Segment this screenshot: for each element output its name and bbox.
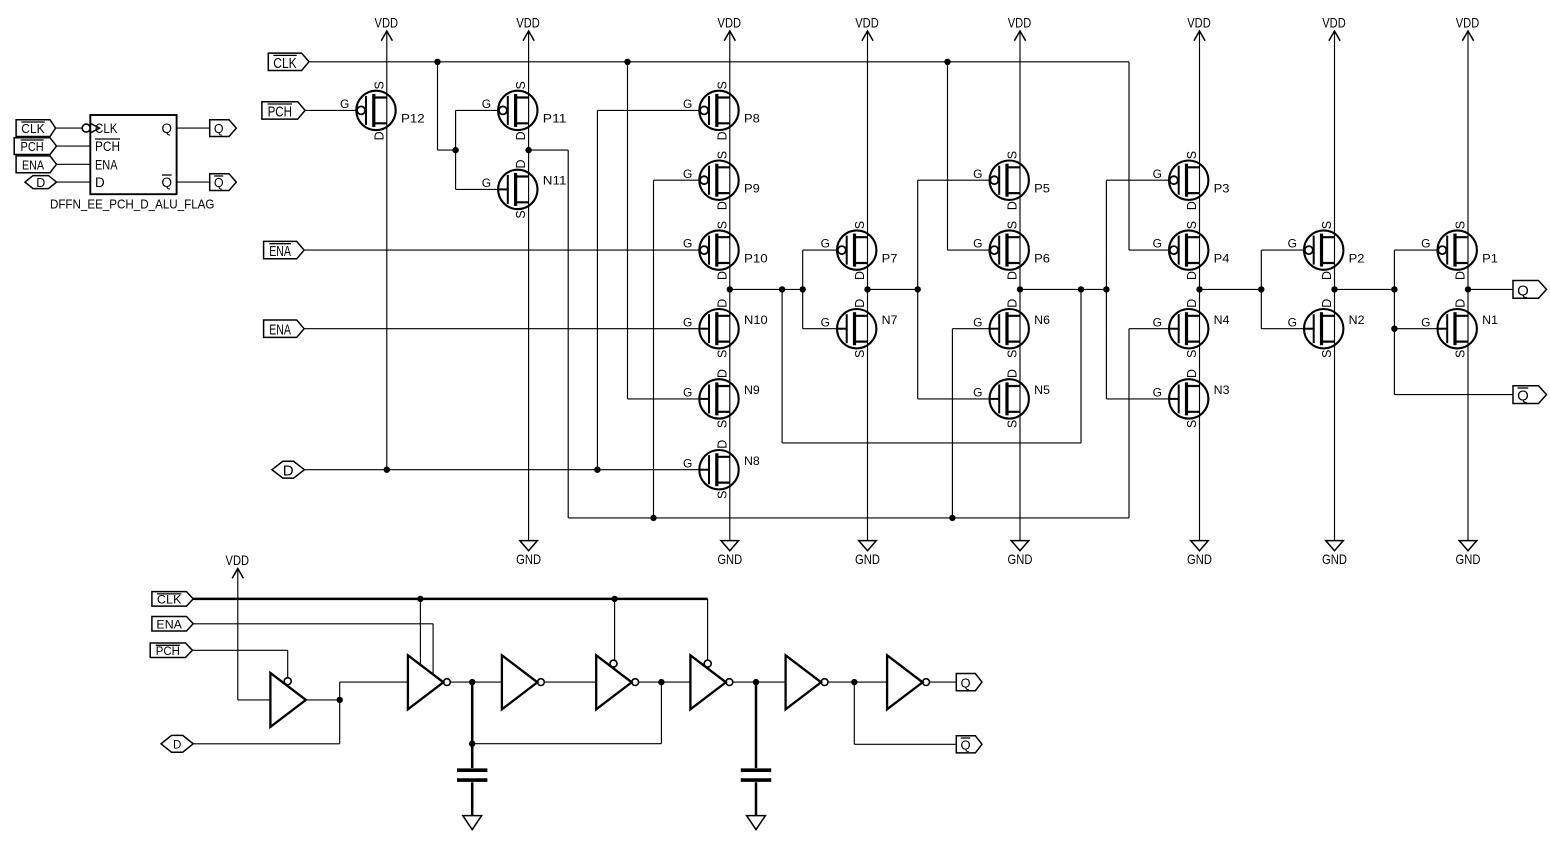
svg-text:Q: Q <box>214 122 224 136</box>
svg-text:P4: P4 <box>1214 251 1230 265</box>
svg-text:P7: P7 <box>882 251 898 265</box>
svg-text:S: S <box>1006 221 1020 229</box>
svg-text:GND: GND <box>1322 551 1347 567</box>
svg-text:P11: P11 <box>543 112 567 126</box>
svg-text:S: S <box>1006 350 1020 358</box>
svg-text:P2: P2 <box>1349 251 1365 265</box>
svg-text:G: G <box>973 237 982 251</box>
svg-text:D: D <box>36 176 45 190</box>
svg-text:S: S <box>514 210 528 218</box>
svg-text:D: D <box>95 175 105 190</box>
svg-text:CLK: CLK <box>21 122 45 136</box>
svg-text:N3: N3 <box>1214 383 1230 397</box>
svg-text:Q: Q <box>1517 388 1529 405</box>
svg-text:ENA: ENA <box>22 158 45 172</box>
svg-text:D: D <box>715 299 729 308</box>
svg-text:D: D <box>514 159 528 168</box>
svg-text:D: D <box>853 271 867 280</box>
svg-text:G: G <box>1421 237 1430 251</box>
svg-text:D: D <box>1320 271 1334 280</box>
svg-text:GND: GND <box>717 551 742 567</box>
svg-text:P5: P5 <box>1034 181 1050 195</box>
svg-text:S: S <box>715 151 729 159</box>
svg-text:N2: N2 <box>1349 313 1365 327</box>
svg-text:D: D <box>1320 299 1334 308</box>
svg-text:PCH: PCH <box>268 103 292 120</box>
svg-text:G: G <box>482 97 491 111</box>
svg-text:VDD: VDD <box>1322 16 1346 31</box>
svg-text:VDD: VDD <box>718 16 742 31</box>
svg-text:D: D <box>853 299 867 308</box>
svg-text:ENA: ENA <box>156 620 182 632</box>
svg-text:G: G <box>1153 315 1162 329</box>
svg-text:D: D <box>1454 299 1468 308</box>
svg-text:S: S <box>1185 350 1199 358</box>
svg-text:CLK: CLK <box>157 595 182 607</box>
svg-text:N10: N10 <box>744 313 768 327</box>
svg-text:G: G <box>683 315 692 329</box>
svg-text:S: S <box>1320 221 1334 229</box>
svg-text:G: G <box>1153 386 1162 400</box>
svg-text:ENA: ENA <box>269 322 291 339</box>
svg-text:D: D <box>1006 369 1020 378</box>
svg-text:S: S <box>715 491 729 499</box>
svg-text:PCH: PCH <box>21 140 44 154</box>
svg-text:S: S <box>372 81 386 89</box>
svg-text:G: G <box>683 386 692 400</box>
svg-text:ENA: ENA <box>95 157 118 172</box>
svg-text:VDD: VDD <box>375 16 399 31</box>
svg-text:GND: GND <box>1008 551 1033 567</box>
svg-text:G: G <box>1288 315 1297 329</box>
svg-text:G: G <box>973 386 982 400</box>
svg-text:S: S <box>1006 420 1020 428</box>
svg-text:D: D <box>1006 271 1020 280</box>
svg-text:Q: Q <box>162 175 173 190</box>
svg-text:G: G <box>683 237 692 251</box>
svg-text:D: D <box>1185 271 1199 280</box>
svg-text:G: G <box>1153 167 1162 181</box>
svg-text:PCH: PCH <box>156 646 180 658</box>
svg-text:Q: Q <box>960 675 970 690</box>
svg-text:G: G <box>482 176 491 190</box>
svg-text:G: G <box>683 456 692 470</box>
svg-text:VDD: VDD <box>855 16 879 31</box>
svg-text:D: D <box>715 131 729 140</box>
svg-text:S: S <box>1185 151 1199 159</box>
svg-text:D: D <box>1185 201 1199 210</box>
svg-text:Q: Q <box>1517 282 1529 299</box>
svg-text:VDD: VDD <box>1008 16 1032 31</box>
svg-text:D: D <box>715 201 729 210</box>
svg-text:N7: N7 <box>882 313 898 327</box>
svg-text:N8: N8 <box>744 454 760 468</box>
svg-text:S: S <box>715 221 729 229</box>
svg-text:N11: N11 <box>543 174 567 188</box>
svg-text:D: D <box>1185 369 1199 378</box>
svg-text:G: G <box>340 97 349 111</box>
svg-text:G: G <box>973 315 982 329</box>
svg-text:VDD: VDD <box>1187 16 1211 31</box>
svg-text:PCH: PCH <box>95 139 120 154</box>
svg-text:N9: N9 <box>744 383 760 397</box>
svg-text:D: D <box>715 271 729 280</box>
svg-text:N1: N1 <box>1482 313 1498 327</box>
svg-text:VDD: VDD <box>226 553 250 568</box>
svg-text:VDD: VDD <box>516 16 540 31</box>
svg-text:Q: Q <box>162 121 173 136</box>
svg-text:S: S <box>514 81 528 89</box>
svg-text:G: G <box>683 167 692 181</box>
svg-text:G: G <box>973 167 982 181</box>
svg-text:D: D <box>514 131 528 140</box>
svg-text:P3: P3 <box>1214 181 1230 195</box>
svg-text:D: D <box>715 369 729 378</box>
svg-text:S: S <box>1185 420 1199 428</box>
svg-text:D: D <box>1006 201 1020 210</box>
svg-text:S: S <box>1320 350 1334 358</box>
svg-text:VDD: VDD <box>1456 16 1480 31</box>
svg-text:D: D <box>1454 271 1468 280</box>
svg-text:D: D <box>1006 299 1020 308</box>
svg-text:G: G <box>1421 315 1430 329</box>
svg-text:N4: N4 <box>1214 313 1230 327</box>
svg-text:GND: GND <box>1456 551 1481 567</box>
svg-text:GND: GND <box>855 551 880 567</box>
svg-text:CLK: CLK <box>273 55 296 72</box>
svg-text:Q: Q <box>214 176 224 190</box>
svg-text:S: S <box>1454 350 1468 358</box>
svg-text:P9: P9 <box>744 181 760 195</box>
svg-text:D: D <box>1185 299 1199 308</box>
svg-text:P8: P8 <box>744 112 760 126</box>
svg-text:S: S <box>1185 221 1199 229</box>
svg-text:GND: GND <box>516 551 541 567</box>
svg-text:S: S <box>853 221 867 229</box>
svg-text:ENA: ENA <box>269 243 291 260</box>
svg-text:G: G <box>821 315 830 329</box>
svg-text:N5: N5 <box>1034 383 1050 397</box>
svg-text:D: D <box>715 440 729 449</box>
svg-text:P10: P10 <box>744 251 768 265</box>
svg-text:S: S <box>1454 221 1468 229</box>
svg-text:G: G <box>821 237 830 251</box>
svg-text:S: S <box>715 81 729 89</box>
svg-text:CLK: CLK <box>95 121 118 136</box>
svg-text:P6: P6 <box>1034 251 1050 265</box>
svg-text:D: D <box>372 131 386 140</box>
svg-text:N6: N6 <box>1034 313 1050 327</box>
svg-text:D: D <box>283 463 294 480</box>
svg-text:P1: P1 <box>1482 251 1498 265</box>
svg-text:P12: P12 <box>401 112 425 126</box>
svg-text:G: G <box>1288 237 1297 251</box>
svg-text:S: S <box>715 420 729 428</box>
svg-text:D: D <box>173 740 181 752</box>
svg-text:S: S <box>715 350 729 358</box>
svg-text:S: S <box>1006 151 1020 159</box>
svg-text:Q: Q <box>960 738 970 753</box>
svg-text:DFFN_EE_PCH_D_ALU_FLAG: DFFN_EE_PCH_D_ALU_FLAG <box>50 197 215 212</box>
svg-text:S: S <box>853 350 867 358</box>
svg-text:G: G <box>1153 237 1162 251</box>
svg-text:GND: GND <box>1187 551 1212 567</box>
svg-text:G: G <box>683 97 692 111</box>
